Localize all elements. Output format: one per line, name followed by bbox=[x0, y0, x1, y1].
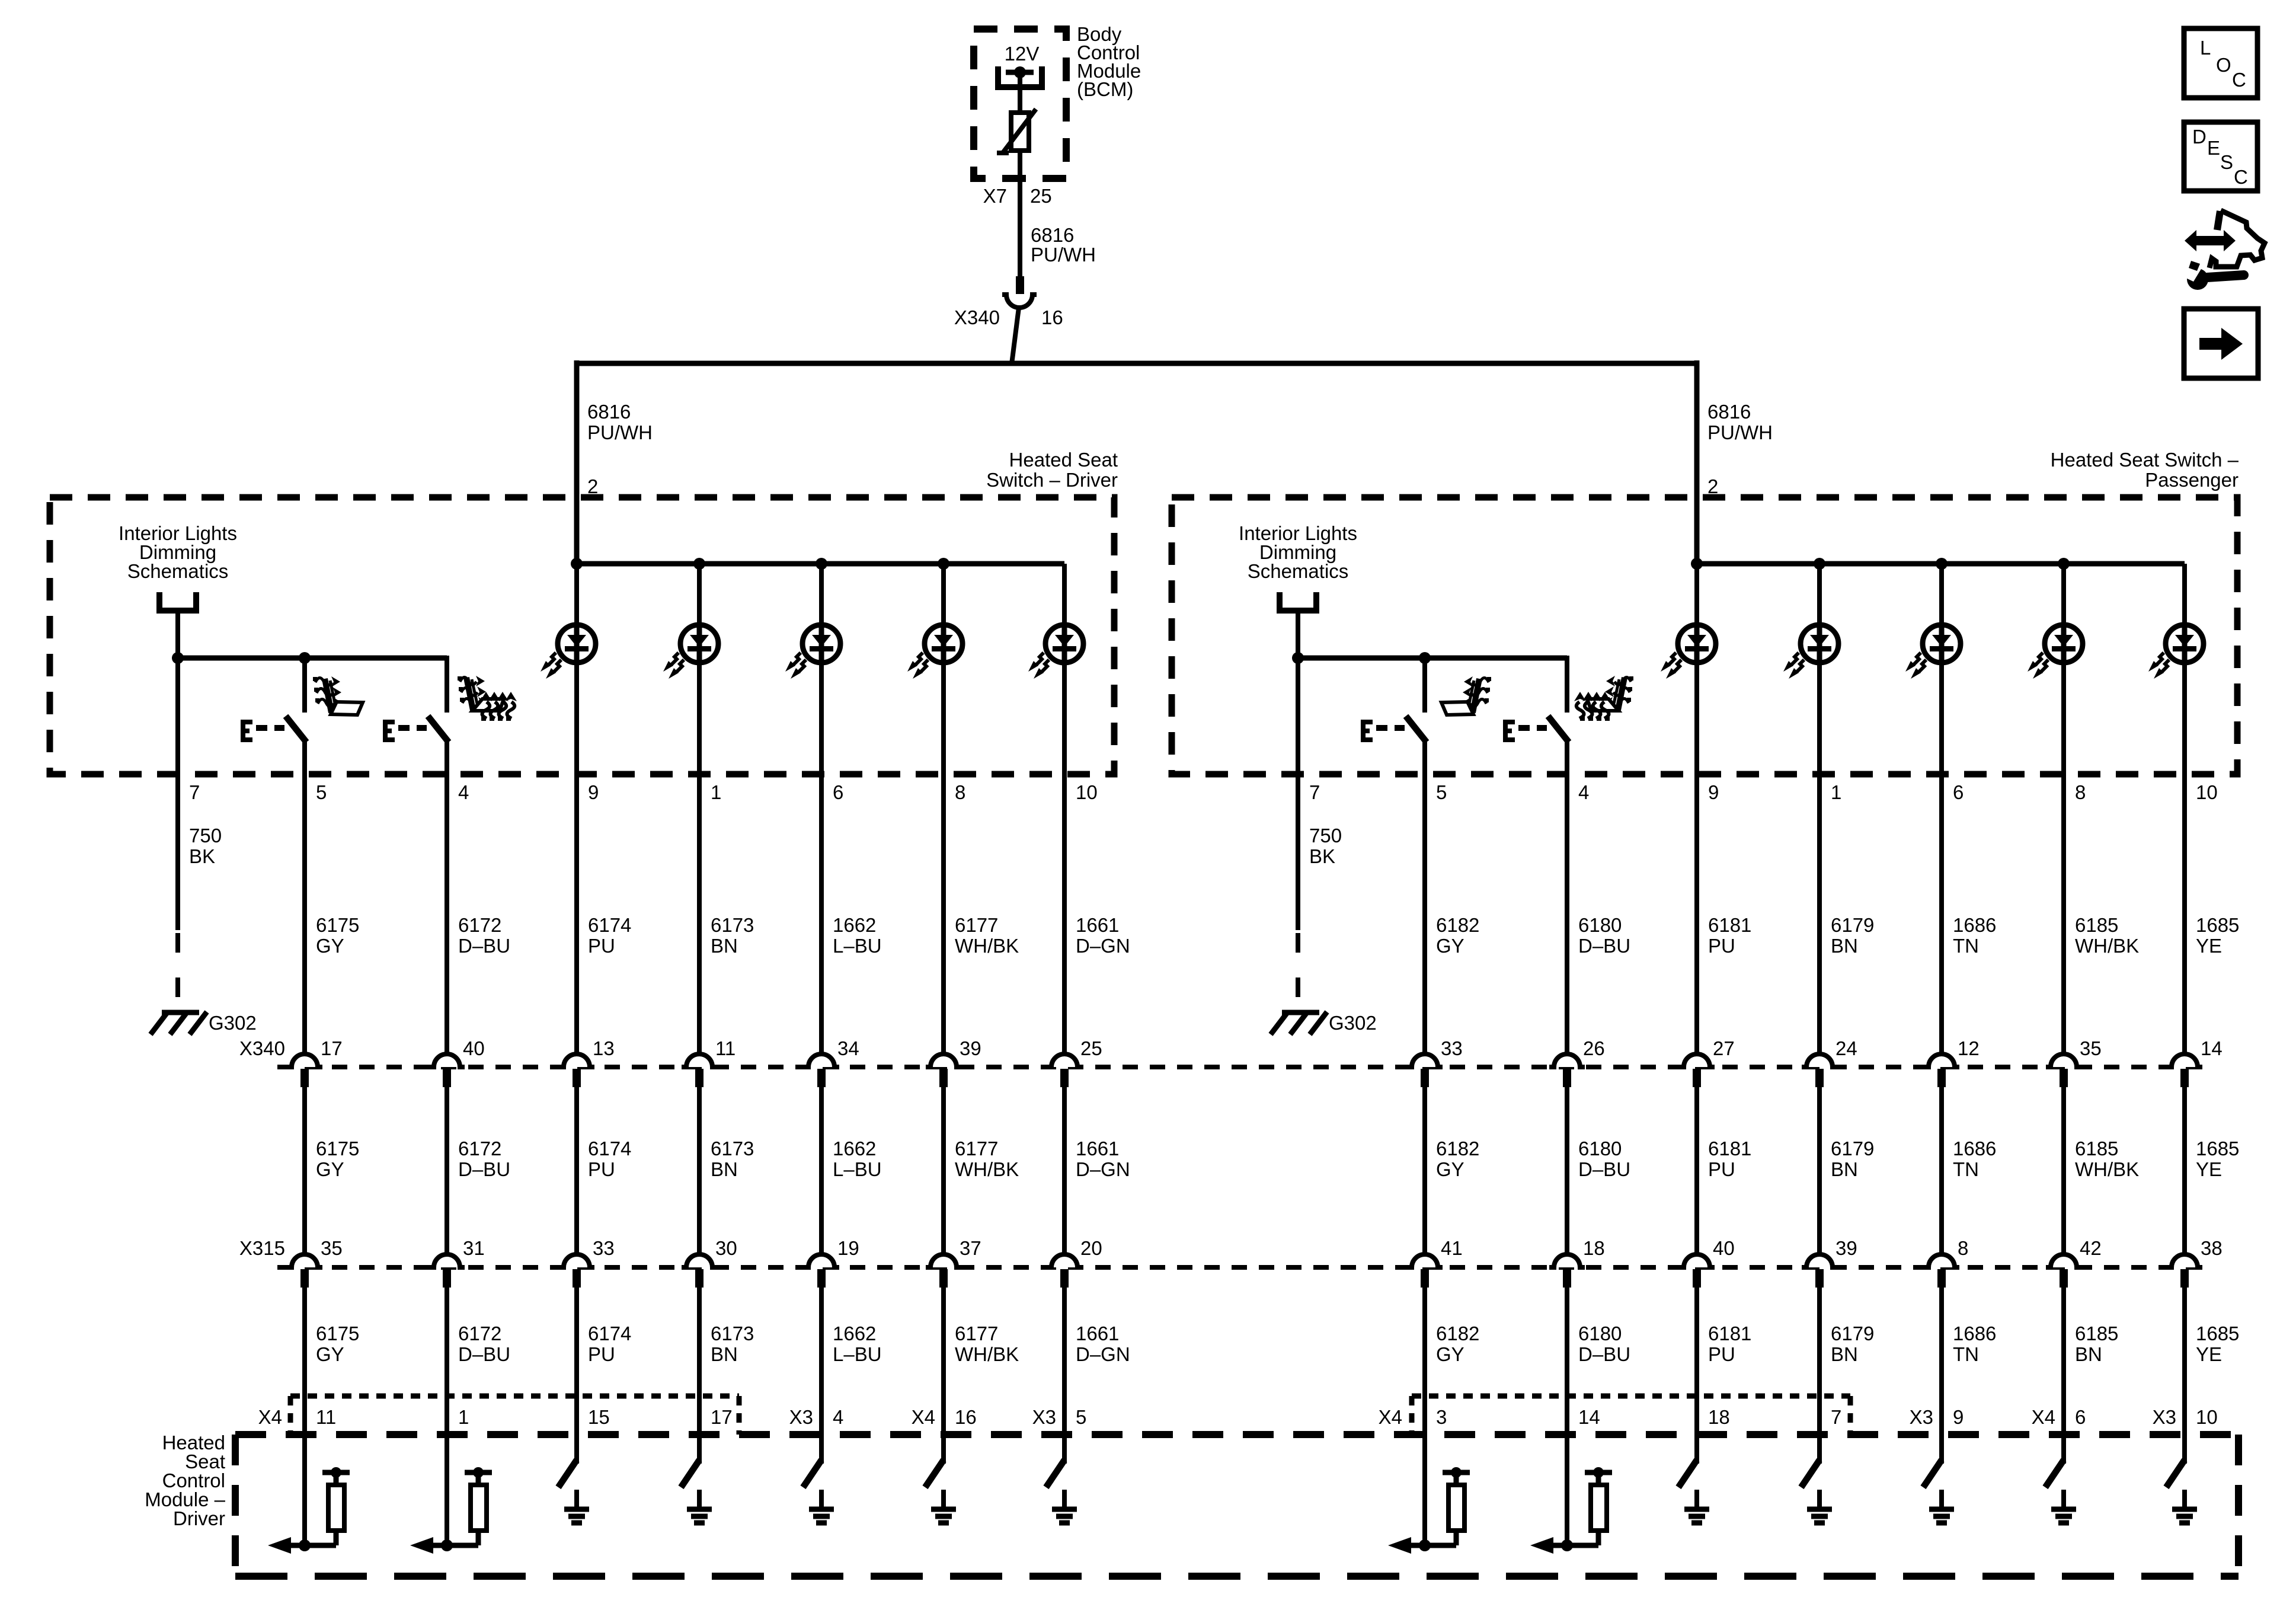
svg-text:WH/BK: WH/BK bbox=[955, 935, 1019, 957]
svg-text:14: 14 bbox=[1578, 1406, 1600, 1428]
svg-text:1661: 1661 bbox=[1076, 914, 1119, 936]
svg-text:750: 750 bbox=[1309, 825, 1342, 846]
svg-text:GY: GY bbox=[316, 935, 344, 957]
wire to switch 1 bbox=[302, 658, 307, 713]
svg-text:6180: 6180 bbox=[1578, 1322, 1622, 1344]
svg-text:26: 26 bbox=[1583, 1037, 1605, 1059]
connector X315 terminal 19 bbox=[804, 1254, 839, 1288]
connector X340 pin 16 (inline connector) bbox=[1002, 276, 1037, 308]
wire LED to connector bbox=[1939, 564, 1944, 1055]
svg-text:GY: GY bbox=[1436, 935, 1464, 957]
heated cushion and back icon (driver) bbox=[458, 676, 517, 721]
Interior Lights Dimming Schematics label (passenger) bbox=[1239, 522, 1357, 582]
svg-text:41: 41 bbox=[1441, 1237, 1463, 1259]
svg-text:BK: BK bbox=[1309, 845, 1335, 867]
wire X315 to module bbox=[1939, 1288, 1944, 1435]
heated cushion and back icon (passenger) bbox=[1574, 676, 1633, 721]
indicator LED (passenger pin 9) bbox=[1661, 625, 1716, 679]
svg-text:X4: X4 bbox=[912, 1406, 935, 1428]
indicator LED (driver pin 8) bbox=[907, 625, 962, 679]
indicator LED (driver pin 1) bbox=[663, 625, 718, 679]
wire pin 11 into module bbox=[302, 1435, 307, 1545]
svg-text:1: 1 bbox=[1831, 781, 1841, 803]
wire label 1661 (mid) bbox=[1076, 1138, 1130, 1180]
wire X340 to X315 bbox=[819, 1087, 824, 1255]
wire label 6182 (lower) bbox=[1436, 1322, 1479, 1365]
Body Control Module (BCM) dashed box bbox=[974, 29, 1066, 178]
svg-text:6172: 6172 bbox=[458, 1322, 501, 1344]
wire label 1685 (passenger) bbox=[2196, 914, 2239, 957]
svg-text:2: 2 bbox=[1707, 475, 1718, 497]
svg-text:40: 40 bbox=[1713, 1237, 1735, 1259]
svg-text:BN: BN bbox=[1831, 1158, 1858, 1180]
wire X315 to module bbox=[2182, 1288, 2187, 1435]
svg-text:17: 17 bbox=[321, 1037, 343, 1059]
node junction bbox=[816, 558, 827, 570]
svg-text:38: 38 bbox=[2201, 1237, 2223, 1259]
svg-text:8: 8 bbox=[2075, 781, 2086, 803]
svg-text:24: 24 bbox=[1835, 1037, 1857, 1059]
svg-text:6816: 6816 bbox=[587, 401, 631, 423]
chassis ground G302 (driver) bbox=[151, 1012, 207, 1034]
BCM label bbox=[1077, 23, 1141, 100]
wire label 6172 (mid) bbox=[458, 1138, 510, 1180]
indicator LED (driver pin 9) bbox=[541, 625, 596, 679]
thermistor sense resistor (pin 1) bbox=[410, 1467, 492, 1554]
heated cushion icon (passenger) bbox=[1441, 676, 1491, 715]
wire X315 to module bbox=[1422, 1288, 1427, 1435]
svg-text:6174: 6174 bbox=[588, 1322, 631, 1344]
svg-text:6180: 6180 bbox=[1578, 914, 1622, 936]
svg-text:6185: 6185 bbox=[2075, 1138, 2118, 1159]
svg-text:PU/WH: PU/WH bbox=[1031, 244, 1096, 266]
wire label 1686 (lower) bbox=[1953, 1322, 1996, 1365]
svg-text:Heated Seat: Heated Seat bbox=[1009, 449, 1118, 471]
svg-text:1686: 1686 bbox=[1953, 1138, 1996, 1159]
Heated Seat Control Module dashed box bbox=[235, 1431, 2239, 1438]
svg-text:TN: TN bbox=[1953, 1158, 1979, 1180]
switch to ground (pin 6) bbox=[2045, 1460, 2076, 1523]
svg-text:X340: X340 bbox=[239, 1037, 285, 1059]
node junction bbox=[1814, 558, 1825, 570]
svg-text:D–BU: D–BU bbox=[458, 1343, 510, 1365]
connector X340 terminal 39 bbox=[926, 1054, 961, 1087]
svg-text:1: 1 bbox=[458, 1406, 469, 1428]
svg-text:G302: G302 bbox=[209, 1012, 257, 1034]
svg-text:9: 9 bbox=[588, 781, 599, 803]
connector X340 terminal 26 bbox=[1549, 1054, 1585, 1087]
svg-text:9: 9 bbox=[1708, 781, 1719, 803]
svg-text:6182: 6182 bbox=[1436, 914, 1479, 936]
svg-text:8: 8 bbox=[1958, 1237, 1968, 1259]
wire X340 to X315 bbox=[1817, 1087, 1822, 1255]
switch to ground (pin 10) bbox=[2166, 1460, 2197, 1523]
svg-text:BN: BN bbox=[2075, 1343, 2102, 1365]
svg-text:6: 6 bbox=[1953, 781, 1964, 803]
node junction bbox=[571, 558, 583, 570]
wire pin 3 into module bbox=[1422, 1435, 1427, 1545]
wire X315 to module bbox=[574, 1288, 579, 1435]
svg-text:D–BU: D–BU bbox=[1578, 935, 1630, 957]
svg-text:BK: BK bbox=[189, 845, 215, 867]
wire X340 to X315 bbox=[1694, 1087, 1699, 1255]
svg-text:4: 4 bbox=[1578, 781, 1589, 803]
svg-text:12V: 12V bbox=[1005, 43, 1040, 65]
svg-text:40: 40 bbox=[463, 1037, 485, 1059]
thermistor sense resistor (pin 3) bbox=[1388, 1467, 1470, 1554]
wire X315 to module bbox=[697, 1288, 702, 1435]
svg-text:30: 30 bbox=[715, 1237, 737, 1259]
svg-text:Heated Seat Switch –: Heated Seat Switch – bbox=[2051, 449, 2239, 471]
svg-text:X4: X4 bbox=[258, 1406, 282, 1428]
wire label 1661 (driver) bbox=[1076, 914, 1130, 957]
svg-text:L–BU: L–BU bbox=[833, 935, 882, 957]
wire label 6172 (lower) bbox=[458, 1322, 510, 1365]
dimmer switch 2 (passenger pin 4) bbox=[1503, 716, 1569, 742]
dimmer switch 1 (driver pin 5) bbox=[241, 716, 306, 742]
svg-text:6175: 6175 bbox=[316, 1138, 359, 1159]
svg-text:D–GN: D–GN bbox=[1076, 1158, 1130, 1180]
indicator LED (driver pin 6) bbox=[785, 625, 840, 679]
svg-text:L–BU: L–BU bbox=[833, 1343, 882, 1365]
connector X4 dotted outline (passenger) bbox=[1412, 1396, 1850, 1435]
svg-text:X7: X7 bbox=[983, 185, 1007, 207]
wire switch 1 to pin 5 bbox=[1422, 742, 1427, 1055]
svg-text:X3: X3 bbox=[1032, 1406, 1056, 1428]
svg-text:WH/BK: WH/BK bbox=[955, 1158, 1019, 1180]
svg-text:YE: YE bbox=[2196, 1343, 2222, 1365]
LED feed bus (driver) bbox=[577, 561, 1064, 567]
connector X4 dotted outline (driver) bbox=[290, 1396, 739, 1435]
svg-text:6174: 6174 bbox=[588, 1138, 631, 1159]
thermistor sense resistor (pin 14) bbox=[1530, 1467, 1612, 1554]
Heated Seat Switch - Passenger label bbox=[2051, 449, 2239, 491]
wire label 6180 (mid) bbox=[1578, 1138, 1630, 1180]
svg-text:10: 10 bbox=[2196, 1406, 2218, 1428]
indicator LED (passenger pin 10) bbox=[2148, 625, 2204, 679]
svg-text:(BCM): (BCM) bbox=[1077, 78, 1133, 100]
svg-text:16: 16 bbox=[1041, 306, 1063, 328]
wire X315 to module bbox=[819, 1288, 824, 1435]
svg-text:GY: GY bbox=[316, 1343, 344, 1365]
svg-text:PU/WH: PU/WH bbox=[1707, 421, 1773, 443]
connector X315 terminal 33 bbox=[559, 1254, 594, 1288]
svg-text:8: 8 bbox=[955, 781, 965, 803]
wire X315 to module bbox=[445, 1288, 449, 1435]
connector X340 terminal 12 bbox=[1924, 1054, 1959, 1087]
connector X315 terminal 31 bbox=[429, 1254, 465, 1288]
connector X315 terminal 35 bbox=[287, 1254, 322, 1288]
svg-text:WH/BK: WH/BK bbox=[2075, 935, 2139, 957]
wire label 6179 (passenger) bbox=[1831, 914, 1874, 957]
LED feed bus (passenger) bbox=[1697, 561, 2185, 567]
wire bracket to bus bbox=[1296, 611, 1300, 658]
G302 ground dashed wire (passenger) bbox=[1296, 933, 1300, 1008]
svg-text:15: 15 bbox=[588, 1406, 610, 1428]
wire 12V to driver bbox=[1018, 72, 1022, 114]
node junction bbox=[1292, 652, 1304, 664]
connector X315 terminal 8 bbox=[1924, 1254, 1959, 1288]
connector X315 terminal 37 bbox=[926, 1254, 961, 1288]
svg-text:39: 39 bbox=[1835, 1237, 1857, 1259]
svg-text:D: D bbox=[2192, 126, 2207, 148]
svg-text:1661: 1661 bbox=[1076, 1322, 1119, 1344]
indicator LED (passenger pin 8) bbox=[2028, 625, 2083, 679]
wire pin 16 into module bbox=[941, 1435, 946, 1464]
svg-text:17: 17 bbox=[711, 1406, 733, 1428]
svg-text:18: 18 bbox=[1708, 1406, 1730, 1428]
svg-text:L–BU: L–BU bbox=[833, 1158, 882, 1180]
wire to switch 2 bbox=[445, 656, 449, 713]
connector X315 terminal 42 bbox=[2046, 1254, 2081, 1288]
node junction bbox=[693, 558, 705, 570]
indicator LED (passenger pin 6) bbox=[1905, 625, 1961, 679]
svg-text:X3: X3 bbox=[2153, 1406, 2176, 1428]
svg-text:1662: 1662 bbox=[833, 1138, 876, 1159]
svg-text:6174: 6174 bbox=[588, 914, 631, 936]
connector X340 terminal 27 bbox=[1679, 1054, 1715, 1087]
wire label 6177 (lower) bbox=[955, 1322, 1019, 1365]
node junction bbox=[299, 652, 311, 664]
svg-text:16: 16 bbox=[955, 1406, 977, 1428]
wire LED to connector bbox=[2061, 564, 2066, 1055]
svg-text:1685: 1685 bbox=[2196, 1322, 2239, 1344]
wire LED to connector bbox=[1062, 564, 1067, 1055]
svg-text:Switch – Driver: Switch – Driver bbox=[986, 469, 1118, 491]
svg-text:1686: 1686 bbox=[1953, 1322, 1996, 1344]
svg-text:D–BU: D–BU bbox=[458, 935, 510, 957]
wire pin 5 into module bbox=[1062, 1435, 1067, 1464]
connector X340 terminal 34 bbox=[804, 1054, 839, 1087]
wire X315 to module bbox=[1817, 1288, 1822, 1435]
connector X315 terminal 30 bbox=[682, 1254, 717, 1288]
wire pin 15 into module bbox=[574, 1435, 579, 1464]
svg-text:6185: 6185 bbox=[2075, 1322, 2118, 1344]
BCM internal driver (resistor with slash) bbox=[997, 109, 1036, 154]
wire BCM driver to pin 25 bbox=[1018, 151, 1022, 276]
switch to ground (pin 5) bbox=[1046, 1460, 1077, 1523]
wire label 6180 (lower) bbox=[1578, 1322, 1630, 1365]
wire label 6180 (passenger) bbox=[1578, 914, 1630, 957]
main power bus bbox=[577, 361, 1697, 366]
wire label 6185 (passenger) bbox=[2075, 914, 2139, 957]
svg-text:11: 11 bbox=[316, 1406, 336, 1428]
svg-text:7: 7 bbox=[189, 781, 200, 803]
DESC reference box bbox=[2184, 122, 2257, 191]
svg-text:6181: 6181 bbox=[1708, 1322, 1751, 1344]
svg-text:6: 6 bbox=[2075, 1406, 2086, 1428]
wire X315 to module bbox=[941, 1288, 946, 1435]
wire label 6174 (lower) bbox=[588, 1322, 631, 1365]
svg-text:6172: 6172 bbox=[458, 914, 501, 936]
wire pin 17 into module bbox=[697, 1435, 702, 1464]
wire label 6181 (passenger) bbox=[1708, 914, 1751, 957]
wire label 1686 (passenger) bbox=[1953, 914, 1996, 957]
svg-text:7: 7 bbox=[1309, 781, 1320, 803]
svg-text:18: 18 bbox=[1583, 1237, 1605, 1259]
wire LED to connector bbox=[819, 564, 824, 1055]
svg-text:PU: PU bbox=[588, 935, 615, 957]
svg-text:6173: 6173 bbox=[711, 914, 754, 936]
Heated Seat Switch Driver dashed box bbox=[50, 497, 1114, 774]
svg-text:6177: 6177 bbox=[955, 1322, 998, 1344]
node junction bbox=[1419, 652, 1431, 664]
wire X340 to X315 bbox=[697, 1087, 702, 1255]
wire X315 to module bbox=[1062, 1288, 1067, 1435]
svg-text:G302: G302 bbox=[1329, 1012, 1377, 1034]
svg-text:10: 10 bbox=[1076, 781, 1098, 803]
svg-text:33: 33 bbox=[593, 1237, 615, 1259]
switch to ground (pin 9) bbox=[1923, 1460, 1954, 1523]
switch to ground (pin 4) bbox=[803, 1460, 834, 1523]
svg-text:Schematics: Schematics bbox=[127, 560, 229, 582]
wire label 6816 PU/WH (top) bbox=[1031, 224, 1096, 266]
svg-text:4: 4 bbox=[458, 781, 469, 803]
svg-text:X3: X3 bbox=[1910, 1406, 1933, 1428]
connector X315 terminal 18 bbox=[1549, 1254, 1585, 1288]
wire pin 9 into module bbox=[1939, 1435, 1944, 1464]
svg-text:6185: 6185 bbox=[2075, 914, 2118, 936]
G302 ground dashed wire (driver) bbox=[175, 933, 180, 1008]
wire label 6185 (lower) bbox=[2075, 1322, 2118, 1365]
dimmer switch 1 (passenger pin 5) bbox=[1361, 716, 1427, 742]
Heated Seat Switch Passenger dashed box bbox=[1172, 497, 2237, 774]
connector X340 terminal 17 bbox=[287, 1054, 322, 1087]
chassis ground G302 (passenger) bbox=[1271, 1012, 1327, 1034]
svg-text:6172: 6172 bbox=[458, 1138, 501, 1159]
wire pin 10 into module bbox=[2182, 1435, 2187, 1464]
wire switch 2 to pin 4 bbox=[1565, 742, 1569, 1055]
wire label 6173 (lower) bbox=[711, 1322, 754, 1365]
wire X340 to X315 bbox=[1939, 1087, 1944, 1255]
svg-text:12: 12 bbox=[1958, 1037, 1980, 1059]
svg-text:D–BU: D–BU bbox=[1578, 1343, 1630, 1365]
wire label 6181 (lower) bbox=[1708, 1322, 1751, 1365]
wire X315 to module bbox=[302, 1288, 307, 1435]
connector X315 terminal 39 bbox=[1802, 1254, 1837, 1288]
node junction bbox=[2058, 558, 2070, 570]
wire label 6174 (driver) bbox=[588, 914, 631, 957]
connector X340 terminal 40 bbox=[429, 1054, 465, 1087]
svg-text:31: 31 bbox=[463, 1237, 485, 1259]
svg-text:35: 35 bbox=[2080, 1037, 2102, 1059]
svg-text:1685: 1685 bbox=[2196, 1138, 2239, 1159]
svg-text:1662: 1662 bbox=[833, 914, 876, 936]
svg-text:E: E bbox=[2207, 137, 2220, 159]
svg-text:S: S bbox=[2220, 151, 2233, 173]
svg-text:PU: PU bbox=[588, 1158, 615, 1180]
wire to switch 2 bbox=[1565, 656, 1569, 713]
connector X315 dashed line bbox=[277, 1265, 2200, 1270]
svg-text:1662: 1662 bbox=[833, 1322, 876, 1344]
svg-text:6175: 6175 bbox=[316, 914, 359, 936]
wire label 1661 (lower) bbox=[1076, 1322, 1130, 1365]
wire label 6182 (passenger) bbox=[1436, 914, 1479, 957]
svg-text:39: 39 bbox=[960, 1037, 981, 1059]
svg-text:Driver: Driver bbox=[173, 1507, 225, 1529]
svg-text:Passenger: Passenger bbox=[2145, 469, 2239, 491]
svg-text:5: 5 bbox=[1076, 1406, 1086, 1428]
indicator LED (passenger pin 1) bbox=[1783, 625, 1838, 679]
node junction bbox=[172, 652, 184, 664]
svg-text:6173: 6173 bbox=[711, 1322, 754, 1344]
wire connector to bus bbox=[1012, 308, 1019, 364]
svg-text:GY: GY bbox=[316, 1158, 344, 1180]
svg-text:7: 7 bbox=[1831, 1406, 1841, 1428]
wire label 6175 (mid) bbox=[316, 1138, 359, 1180]
svg-text:D–GN: D–GN bbox=[1076, 935, 1130, 957]
wire X340 to X315 bbox=[2061, 1087, 2066, 1255]
LOC reference box bbox=[2184, 28, 2257, 98]
wire X340 to X315 bbox=[1422, 1087, 1427, 1255]
interior lights bracket (driver) bbox=[159, 592, 196, 611]
svg-text:42: 42 bbox=[2080, 1237, 2102, 1259]
wire X315 to module bbox=[2061, 1288, 2066, 1435]
svg-text:C: C bbox=[2232, 69, 2246, 91]
svg-text:6181: 6181 bbox=[1708, 914, 1751, 936]
connector X340 terminal 25 bbox=[1047, 1054, 1082, 1087]
wire LED to connector bbox=[1817, 564, 1822, 1055]
interior lights bracket (passenger) bbox=[1280, 592, 1316, 611]
svg-text:1685: 1685 bbox=[2196, 914, 2239, 936]
wire label 750 BK (driver) bbox=[189, 825, 222, 867]
connector X315 terminal 20 bbox=[1047, 1254, 1082, 1288]
wire label 6181 (mid) bbox=[1708, 1138, 1751, 1180]
wire X340 to X315 bbox=[941, 1087, 946, 1255]
wire pin 7 ground feed bbox=[175, 658, 180, 930]
svg-text:5: 5 bbox=[1436, 781, 1447, 803]
svg-text:6181: 6181 bbox=[1708, 1138, 1751, 1159]
svg-text:35: 35 bbox=[321, 1237, 343, 1259]
connector X340 terminal 13 bbox=[559, 1054, 594, 1087]
wire LED to connector bbox=[2182, 564, 2187, 1055]
svg-text:PU: PU bbox=[1708, 1158, 1735, 1180]
wire LED to connector bbox=[1694, 564, 1699, 1055]
switch to ground (pin 18) bbox=[1678, 1460, 1709, 1523]
svg-text:6: 6 bbox=[833, 781, 843, 803]
connector X340 terminal 35 bbox=[2046, 1054, 2081, 1087]
svg-text:GY: GY bbox=[1436, 1158, 1464, 1180]
wire pin 7 into module bbox=[1817, 1435, 1822, 1464]
svg-text:BN: BN bbox=[711, 935, 738, 957]
svg-text:6173: 6173 bbox=[711, 1138, 754, 1159]
wire label 750 BK (passenger) bbox=[1309, 825, 1342, 867]
svg-text:1661: 1661 bbox=[1076, 1138, 1119, 1159]
svg-text:6816: 6816 bbox=[1031, 224, 1074, 246]
svg-text:25: 25 bbox=[1080, 1037, 1102, 1059]
connector X340 terminal 14 bbox=[2167, 1054, 2202, 1087]
node junction bbox=[1936, 558, 1948, 570]
wire label 6173 (mid) bbox=[711, 1138, 754, 1180]
svg-text:X4: X4 bbox=[2032, 1406, 2055, 1428]
wire to switch 1 bbox=[1422, 658, 1427, 713]
wire label 6175 (driver) bbox=[316, 914, 359, 957]
svg-text:YE: YE bbox=[2196, 1158, 2222, 1180]
svg-text:TN: TN bbox=[1953, 935, 1979, 957]
svg-text:X315: X315 bbox=[239, 1237, 285, 1259]
svg-text:11: 11 bbox=[715, 1037, 736, 1059]
wire label 6816 PU/WH (passenger branch) bbox=[1707, 401, 1773, 443]
svg-text:6179: 6179 bbox=[1831, 1322, 1874, 1344]
svg-text:D–BU: D–BU bbox=[458, 1158, 510, 1180]
svg-text:5: 5 bbox=[316, 781, 327, 803]
svg-text:25: 25 bbox=[1030, 185, 1052, 207]
bus right drop bbox=[1694, 360, 1700, 564]
wire LED to connector bbox=[697, 564, 702, 1055]
svg-text:X3: X3 bbox=[789, 1406, 813, 1428]
wire label 1686 (mid) bbox=[1953, 1138, 1996, 1180]
svg-text:1686: 1686 bbox=[1953, 914, 1996, 936]
